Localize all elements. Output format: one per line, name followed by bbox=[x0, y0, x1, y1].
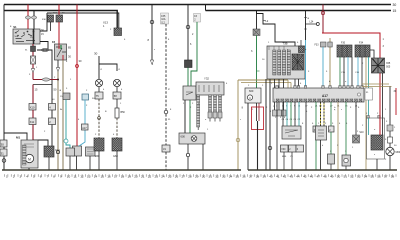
wire pump ground bbox=[257, 121, 259, 170]
wire relay out a bbox=[57, 60, 59, 68]
ECU pin row bbox=[275, 99, 363, 102]
wire tan right b bbox=[362, 86, 392, 88]
connector X6 label box 2 bbox=[0, 149, 7, 156]
wire left ground feed bbox=[3, 5, 5, 171]
svg-text:600: 600 bbox=[181, 135, 186, 139]
wire teal x66 bbox=[65, 100, 67, 140]
svg-text:600: 600 bbox=[249, 89, 254, 93]
wire stub pigtail x301 bbox=[300, 40, 302, 46]
wire starter feed seg4 bbox=[32, 125, 34, 146]
wire olive passthrough bbox=[365, 57, 367, 170]
ruler tick marks bbox=[5, 174, 397, 177]
wire egr ground a bbox=[283, 152, 285, 170]
instrument module P1 bbox=[179, 133, 205, 144]
shield box red outline bbox=[252, 107, 264, 130]
wire lamp1 below bbox=[98, 87, 100, 92]
shield envelope pin caps bbox=[367, 116, 370, 119]
wire cyan f33 bbox=[322, 47, 324, 86]
wire coil ecu link a bbox=[294, 79, 296, 88]
wire lamp1 dashed lower bbox=[98, 99, 100, 138]
wire x152 feed bbox=[151, 5, 153, 61]
wire G7 ground bbox=[330, 164, 332, 170]
wire coil out 3 bbox=[283, 79, 285, 110]
connector ring x166 bbox=[164, 110, 168, 114]
wire switch to starter solenoid bbox=[37, 50, 52, 146]
wire E2 ground bbox=[69, 156, 71, 170]
ECU pin number labels bbox=[276, 106, 358, 108]
wire fuse row link bbox=[47, 13, 119, 28]
svg-text:30: 30 bbox=[393, 3, 397, 7]
wire red feed to ignition switch bbox=[27, 5, 29, 30]
wire terminal 15 feed bbox=[40, 13, 47, 31]
wire ecu d5 black bbox=[294, 102, 296, 126]
wire tan immo bbox=[237, 80, 239, 170]
wire bus 30 (terminal 30 supply) bbox=[4, 4, 391, 6]
wire lamp2 mid bbox=[116, 99, 118, 108]
wire starburst black down bbox=[382, 73, 384, 135]
ECU top pin caps bbox=[276, 86, 279, 89]
coil connector X marks bbox=[292, 54, 304, 70]
connector label x166 bbox=[162, 145, 170, 152]
ECU circle symbol bbox=[357, 93, 360, 96]
svg-text:T3B: T3B bbox=[282, 42, 287, 46]
wire ecu d10 tan bbox=[337, 102, 339, 170]
relay K5 contact bbox=[56, 47, 66, 57]
lamp in module P1 bbox=[191, 136, 197, 142]
svg-text:X10: X10 bbox=[30, 106, 35, 110]
resistor R1 bbox=[115, 108, 119, 118]
wire teal fu7 bbox=[368, 57, 370, 118]
fuse F1 (hatched) bbox=[31, 56, 36, 64]
EGR label a bbox=[281, 145, 289, 152]
wire knock pair a dash bbox=[320, 102, 322, 126]
wire lightblue x85 bbox=[79, 100, 85, 146]
connector X13 pigtail bbox=[114, 28, 122, 36]
wire C11 ground bbox=[116, 151, 118, 170]
wire green x188 bbox=[187, 68, 189, 87]
wire green x197 bbox=[191, 22, 197, 86]
wire ground bus 31 left bbox=[2, 169, 241, 171]
wire tan stub to ecu a bbox=[287, 80, 289, 88]
coil bar 2 bbox=[278, 50, 281, 75]
wire black fu2 bbox=[343, 57, 345, 86]
spark plug rail Y32 bbox=[196, 82, 224, 95]
wire solenoid branch bbox=[33, 140, 48, 146]
sensor B2 (MAP) bbox=[183, 86, 196, 100]
wire coil ground b bbox=[265, 79, 267, 170]
coil connector block bbox=[292, 54, 304, 70]
connector tick jog bbox=[263, 20, 266, 22]
ECU side label box bbox=[365, 88, 373, 100]
fuse F34 bbox=[355, 45, 370, 57]
coil out 1 label bbox=[273, 110, 278, 116]
connector label X10b bbox=[49, 104, 56, 111]
wire lamp2 lower bbox=[116, 118, 118, 138]
wire ecu d8 green bbox=[315, 102, 317, 126]
connector cap green bbox=[253, 29, 260, 36]
svg-text:31: 31 bbox=[1, 152, 5, 156]
sensor G7 bbox=[328, 154, 335, 164]
off-page arrow x152 bbox=[150, 60, 153, 65]
connector E1 cap bbox=[63, 93, 70, 100]
wire fuse F6 to relay bbox=[58, 22, 60, 44]
wire red feed x323 bbox=[322, 5, 324, 34]
spark plug 3 box bbox=[213, 112, 217, 118]
spark plug 2 box bbox=[208, 112, 212, 118]
spark plug 4 box bbox=[218, 112, 222, 118]
lamp1 label box bbox=[95, 92, 103, 99]
wire branch L24 bbox=[306, 23, 317, 25]
wire sensor out green bbox=[189, 100, 191, 133]
svg-text:X30: X30 bbox=[281, 149, 286, 151]
wire M60 ground bbox=[389, 156, 391, 170]
wire P1 ground b bbox=[187, 157, 189, 170]
sensor G3 box bbox=[82, 94, 89, 100]
connector starburst X65 bbox=[372, 58, 385, 73]
wire pump out pair b bbox=[258, 103, 260, 121]
wire bus15 stub from bus30 bbox=[205, 5, 207, 11]
svg-text:S1: S1 bbox=[13, 25, 17, 29]
pump motor M60 bbox=[386, 147, 394, 155]
wire tan horizontal bbox=[238, 79, 288, 81]
wire knock pair b dash bbox=[323, 102, 325, 126]
connector X12 hatched bbox=[44, 146, 54, 157]
wire G4 ground bbox=[89, 156, 91, 170]
fuse F30 dividers bbox=[342, 45, 347, 57]
wire red crank bbox=[379, 102, 381, 135]
wire bus 15 right segment bbox=[206, 10, 392, 12]
connector splice left bbox=[2, 159, 6, 163]
label x331 bbox=[329, 126, 335, 132]
svg-text:Y32: Y32 bbox=[204, 77, 209, 81]
wire cyan fu5 bbox=[357, 57, 359, 86]
ignition coil module Y32.1 bbox=[267, 46, 305, 79]
wire lamp feed stub bbox=[98, 56, 100, 64]
wire cyan fu3 bbox=[347, 57, 349, 86]
wire ecu d11 green bbox=[345, 102, 347, 155]
wire coil out 1 bbox=[274, 79, 276, 110]
sensor G8 bbox=[342, 155, 351, 166]
svg-text:S05: S05 bbox=[386, 66, 391, 69]
coil bar 3 bbox=[282, 50, 285, 75]
wire ecu d2 black bbox=[282, 102, 284, 126]
connector G2 box bbox=[73, 146, 82, 156]
fuel pump unit M3 bbox=[245, 88, 261, 103]
wire ecu d6 teal bbox=[298, 102, 300, 126]
svg-text:30: 30 bbox=[1, 143, 5, 147]
spark plug lead 3 bbox=[214, 95, 217, 112]
coil bar 4 bbox=[287, 50, 290, 75]
wire crossrun 50 bbox=[33, 84, 52, 86]
spark plug stubs bbox=[198, 118, 220, 130]
wire x390 down bbox=[389, 87, 391, 126]
wire red stub right bbox=[395, 88, 397, 115]
wire red bracket bbox=[322, 33, 380, 135]
wire olive f-row bbox=[329, 38, 331, 86]
spark plug lead 4 bbox=[219, 95, 222, 112]
wire bus15 jog bbox=[257, 11, 296, 47]
wire pump out black bbox=[247, 103, 249, 170]
connector ring x66 bbox=[64, 139, 68, 143]
fuse F6 bbox=[56, 15, 63, 22]
svg-text:Br: Br bbox=[60, 108, 62, 111]
connector ring x152 bbox=[150, 20, 154, 24]
fuse cap F33 bbox=[321, 42, 327, 47]
starter brush bar bbox=[23, 145, 27, 165]
lamp2 label box bbox=[113, 92, 121, 99]
wire coil ground bbox=[269, 79, 271, 170]
connector ring x323 bbox=[321, 11, 324, 14]
wire ecu d12 black bbox=[355, 102, 357, 135]
wire crossrun 15 to relay bbox=[33, 79, 58, 81]
connector arrow 2 bbox=[56, 68, 59, 72]
connector arrow bbox=[31, 69, 34, 73]
wire lamp1 drop bbox=[98, 64, 100, 79]
wire starter feed mid bbox=[32, 64, 34, 80]
terminal block switch lower bbox=[31, 46, 36, 52]
wire crank ground bbox=[376, 159, 378, 170]
connector label X11b bbox=[49, 118, 56, 125]
connector tick green bbox=[257, 70, 260, 72]
relay K5 bbox=[55, 44, 67, 60]
wire green pump feed bbox=[256, 36, 258, 89]
wire cyan x307 bbox=[305, 40, 307, 86]
connector oval X3 bbox=[42, 78, 50, 81]
connector ring P1 bbox=[186, 153, 189, 156]
connector oval X2 bbox=[41, 48, 48, 51]
connector splice c bbox=[56, 150, 59, 153]
wire relay out a lower bbox=[57, 72, 59, 171]
starter motor symbol bbox=[25, 154, 33, 162]
svg-text:S10: S10 bbox=[359, 132, 364, 134]
wire starter feed seg3 bbox=[32, 110, 34, 118]
wire pump out pair a bbox=[256, 103, 258, 121]
wire hot feed x77 bbox=[76, 5, 78, 148]
ignition switch S1 bbox=[13, 29, 40, 44]
warning lamp H1 bbox=[95, 79, 102, 86]
label block F35 bbox=[161, 13, 169, 24]
wire black fu4 bbox=[351, 57, 353, 86]
wire x390 seg3 bbox=[389, 143, 391, 147]
label x316 bbox=[313, 126, 319, 132]
wire battery feed to starter bbox=[32, 44, 34, 56]
connector label X15 bbox=[82, 124, 89, 130]
svg-text:X11: X11 bbox=[30, 120, 35, 124]
shield envelope box bbox=[367, 118, 385, 159]
wire x390 seg2 bbox=[389, 131, 391, 137]
connector ring coil ground bbox=[268, 146, 272, 150]
wire ecu d1 black bbox=[276, 102, 278, 170]
fuse F34 dividers bbox=[360, 45, 365, 57]
connector label X11a bbox=[29, 118, 36, 125]
fuse F17 bbox=[48, 15, 54, 22]
coil out 2 label bbox=[277, 110, 282, 116]
fuse F30 bbox=[337, 45, 352, 57]
svg-text:F30: F30 bbox=[341, 42, 346, 45]
G8 symbol bbox=[344, 158, 348, 162]
svg-text:C: C bbox=[249, 96, 251, 100]
warning lamp H2 bbox=[113, 79, 120, 86]
fuse F52 bbox=[388, 137, 393, 143]
wire relay out b bbox=[62, 60, 64, 170]
wire ecu d4 green bbox=[290, 102, 292, 126]
wire sensor out black bbox=[184, 100, 186, 133]
connector ring x188 bbox=[186, 25, 190, 29]
ground track number ruler bbox=[6, 175, 395, 179]
EGR wire pin labels bbox=[282, 119, 301, 121]
connector ring L24 bbox=[316, 23, 319, 26]
wire branch to starter box bbox=[4, 133, 27, 140]
wire G2 ground bbox=[76, 156, 78, 170]
wire solenoid to ground bus bbox=[48, 157, 50, 170]
wire ignition switch thick stem bbox=[33, 29, 35, 44]
svg-text:G60: G60 bbox=[113, 155, 118, 158]
tick marks x305 bbox=[304, 18, 307, 30]
splice dot relay junction bbox=[57, 79, 59, 81]
wire b15 drop x307 bbox=[305, 11, 307, 41]
EGR valve Y6 bbox=[282, 126, 301, 139]
connector C11 box bbox=[112, 138, 122, 151]
wire teal into shield bbox=[368, 118, 370, 135]
connector X6 label box bbox=[0, 140, 7, 147]
wire tan stub to ecu b bbox=[290, 83, 292, 89]
wire starter ground bbox=[28, 168, 30, 170]
wire x316 lower bbox=[315, 132, 317, 170]
wire fuse F17 drop bbox=[50, 22, 52, 31]
wire switch output right bbox=[40, 42, 48, 50]
coil bar 1 bbox=[273, 50, 276, 75]
ignition switch contacts bbox=[15, 31, 35, 42]
connector ring tan bbox=[236, 138, 240, 142]
wire lamp2 below bbox=[116, 87, 118, 92]
connector splice x77 bbox=[76, 65, 79, 68]
wire tan horizontal b bbox=[241, 82, 291, 84]
olive wire cap bbox=[328, 42, 332, 47]
connector tick lamp1 bbox=[98, 117, 101, 120]
wire coil out 2 bbox=[278, 79, 280, 110]
svg-text:15: 15 bbox=[393, 9, 397, 13]
knock sensor B4 bbox=[316, 126, 327, 140]
wire bus 15 left segment bbox=[4, 11, 117, 29]
wire C10 ground bbox=[98, 151, 100, 170]
wire lamp H bar bbox=[99, 64, 117, 71]
wire ground bus 31 right bbox=[248, 169, 397, 171]
wire ecu d7 black bbox=[305, 102, 307, 170]
wire knock pair a base bbox=[320, 102, 322, 126]
starter motor M1 box bbox=[21, 140, 38, 168]
crank sensor B1 hatched bbox=[371, 135, 383, 150]
wire green fu1 bbox=[339, 57, 341, 86]
connector C10 box bbox=[94, 138, 104, 151]
wire red feed to fuse F6 bbox=[58, 5, 60, 16]
pump motor symbol bbox=[247, 95, 252, 100]
engine control unit A17 bbox=[273, 88, 364, 102]
misc tiny annotations batch2 bbox=[10, 13, 397, 157]
svg-text:M60: M60 bbox=[396, 151, 400, 154]
wire to starburst bbox=[370, 50, 374, 58]
wire P1 ground c bbox=[202, 144, 204, 170]
EGR label b bbox=[289, 145, 297, 152]
coil out 3 label bbox=[282, 110, 287, 116]
wire dashed x166 bbox=[165, 24, 167, 110]
misc tiny annotations bbox=[44, 29, 387, 161]
wire knock ground bbox=[320, 140, 322, 170]
connector oval pair X1 bbox=[25, 16, 30, 19]
spark plug lead 1 bbox=[197, 95, 200, 127]
svg-text:F34: F34 bbox=[359, 42, 364, 45]
wire x188 feed bbox=[187, 5, 189, 61]
svg-text:30: 30 bbox=[94, 52, 98, 56]
wire bus15 to cap bbox=[256, 11, 258, 30]
svg-text:M1: M1 bbox=[16, 136, 20, 140]
wire ecu d9 green bbox=[330, 102, 332, 126]
svg-text:B50: B50 bbox=[121, 111, 126, 114]
wire dashed x166 lower bbox=[165, 114, 167, 145]
svg-text:M: M bbox=[28, 157, 31, 161]
wire tan right a bbox=[362, 83, 389, 85]
svg-text:A17: A17 bbox=[82, 127, 87, 130]
wire coil ecu link b bbox=[298, 79, 300, 88]
wire black fu6 bbox=[361, 57, 363, 86]
wire egr ground b bbox=[291, 152, 293, 170]
svg-text:A17: A17 bbox=[322, 94, 328, 98]
wire G8 ground bbox=[345, 166, 347, 170]
wire x331 lower bbox=[330, 132, 332, 154]
connector G4 box bbox=[86, 147, 96, 156]
connector pigtail X22 bbox=[299, 46, 305, 53]
connector plug x356 bbox=[353, 135, 360, 143]
wire teal x66 lower bbox=[66, 143, 70, 148]
spark plug lead 2 bbox=[209, 95, 212, 112]
label block green x197 bbox=[194, 14, 201, 23]
wire knock pair b base bbox=[323, 102, 325, 126]
wire starter feed lower bbox=[32, 85, 34, 104]
diode module V1 bbox=[185, 60, 193, 68]
relay module x390 bbox=[387, 125, 393, 131]
connector label X10a bbox=[29, 104, 36, 111]
connector E2 box bbox=[66, 148, 75, 156]
wire ecu d3 teal bbox=[286, 102, 288, 126]
EGR label c bbox=[296, 145, 304, 152]
wire black feed to ignition switch bbox=[33, 11, 35, 30]
wire x166 ground bbox=[165, 152, 167, 170]
wire P1 ground a bbox=[187, 144, 189, 153]
